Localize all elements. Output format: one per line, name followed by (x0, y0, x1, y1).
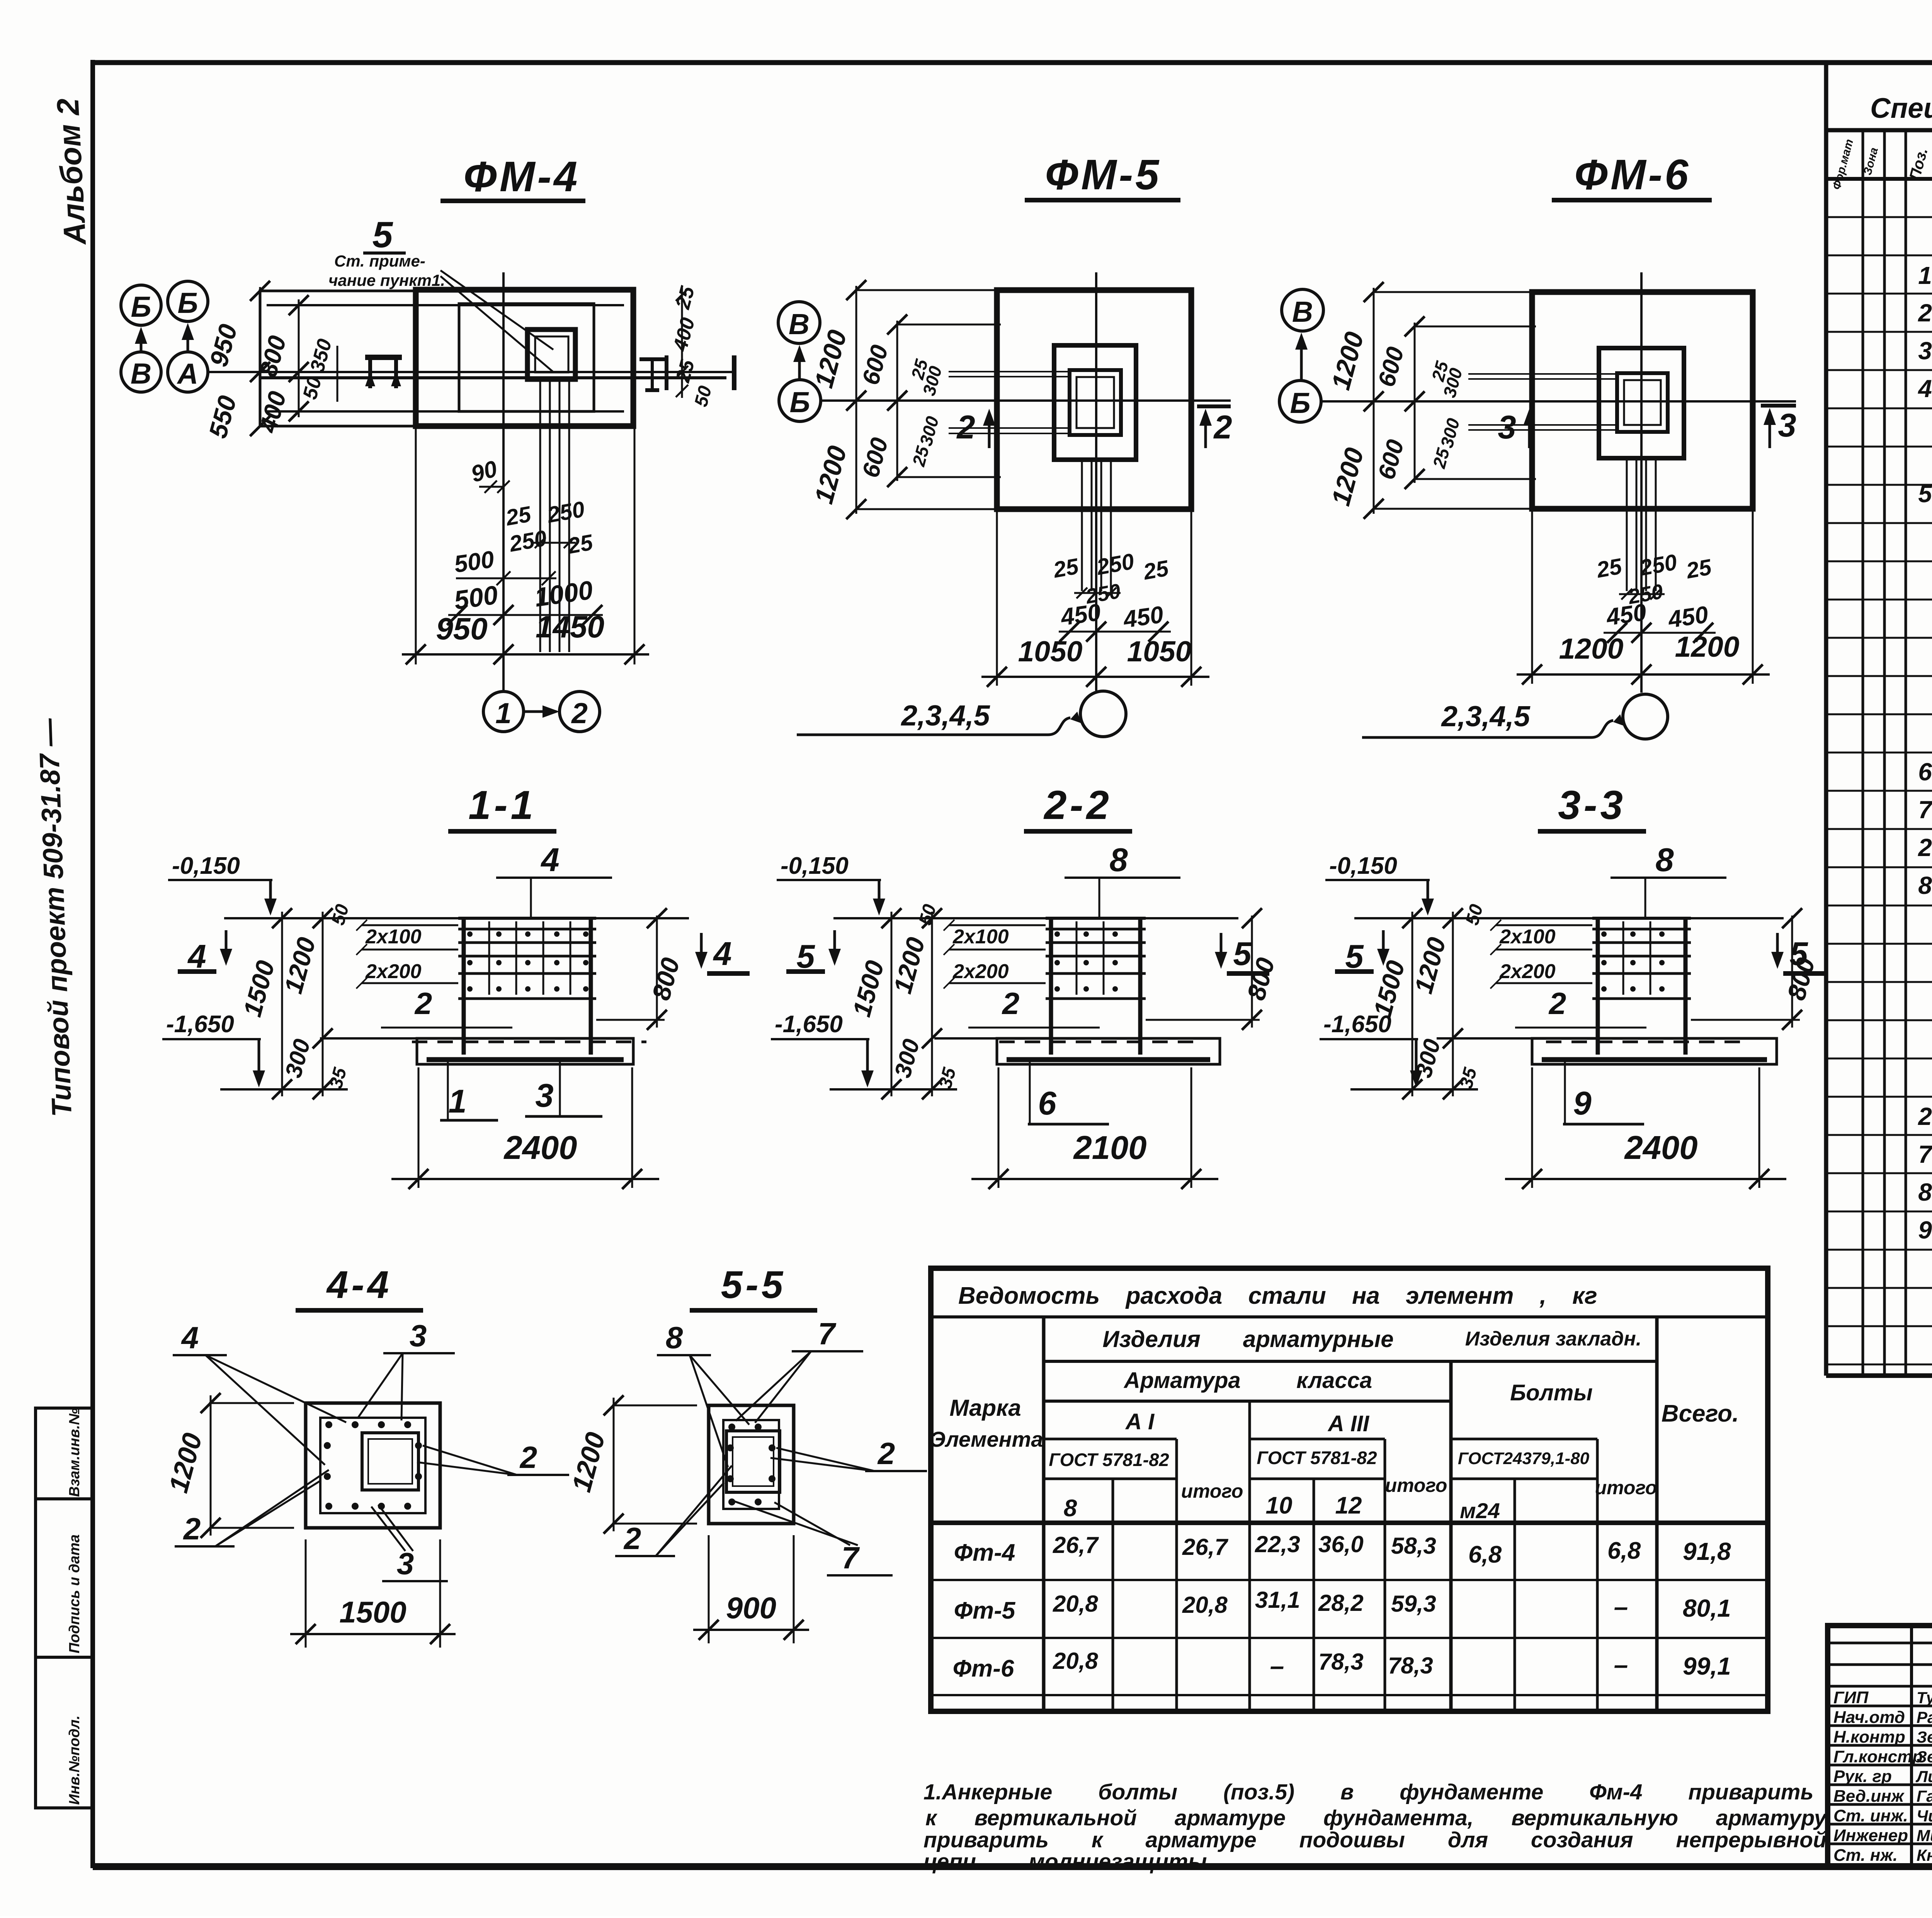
svg-text:Спецификация к фундамента: Спецификация к фундаментам Фт-4 ÷ Фт-6 (1870, 93, 1932, 124)
section 2-2 dim chain 1500/1200/300 (847, 902, 960, 1099)
detail 5-5 dim 900 (693, 1535, 809, 1643)
svg-text:Мирошниченко: Мирошниченко (1917, 1826, 1932, 1845)
spec row 7b (1918, 1140, 1932, 1174)
detail 4-4 dim 1200 (163, 1393, 294, 1538)
spec row 7 (1918, 795, 1932, 829)
svg-text:6,8: 6,8 (1607, 1537, 1641, 1564)
svg-text:4: 4 (1917, 375, 1932, 403)
svg-text:25: 25 (1141, 556, 1171, 585)
plan FM-5 dims 25 250 25 (1051, 549, 1171, 608)
svg-text:2: 2 (1918, 299, 1932, 327)
svg-text:500: 500 (452, 580, 500, 615)
margin text Album 2 (50, 97, 92, 246)
svg-text:2: 2 (1918, 1103, 1932, 1130)
plan FM-5 axis circle B (779, 380, 821, 421)
svg-text:Б: Б (1290, 387, 1310, 419)
plan FM-6 dims 25 250 25 (1594, 549, 1714, 608)
svg-text:1: 1 (495, 697, 512, 729)
plan FM-4 anchor box (527, 330, 575, 379)
detail 5-5 leader ('2', 2294, 3790) right (770, 1436, 927, 1471)
svg-text:4: 4 (540, 842, 559, 878)
section 1-1 cut mark 4 right (695, 933, 750, 973)
detail 4-4 dim 1500 (290, 1539, 456, 1648)
detail 5-5 leader ('2', 1637, 4010) bottom-left (615, 1466, 732, 1556)
svg-text:450: 450 (1666, 601, 1710, 633)
svg-text:2,3,4,5: 2,3,4,5 (1440, 700, 1531, 732)
svg-text:-0,150: -0,150 (172, 853, 240, 879)
svg-text:ГОСТ 5781-82: ГОСТ 5781-82 (1257, 1447, 1377, 1468)
svg-text:Марка: Марка (949, 1395, 1021, 1421)
svg-text:2x200: 2x200 (1499, 960, 1556, 983)
spec row 8b KZhI-S-10 (1918, 1177, 1932, 1207)
plan FM-5 left dimension chain (809, 280, 1070, 519)
section 1-1 cut mark 4 left (178, 930, 232, 975)
svg-text:2,3,4,5: 2,3,4,5 (900, 699, 990, 732)
svg-text:59,3: 59,3 (1391, 1591, 1436, 1617)
svg-text:6: 6 (1038, 1085, 1056, 1122)
svg-text:450: 450 (1121, 601, 1165, 633)
plan FM-4 dims 25 250 25 (503, 496, 595, 559)
plan FM-6 horizontal axis (1322, 400, 1796, 403)
plan FM-6 section mark 3 left (1498, 409, 1536, 448)
svg-text:1: 1 (1918, 262, 1932, 289)
svg-text:-0,150: -0,150 (781, 853, 849, 879)
svg-text:ГОСТ 5781-82: ГОСТ 5781-82 (1049, 1449, 1169, 1470)
plan FM-4 vertical axis line 1 (502, 272, 505, 691)
section 2-2 level -1,650 (771, 1011, 874, 1087)
svg-text:78,3: 78,3 (1388, 1653, 1433, 1678)
plan FM-5 bolt projection lines (1082, 460, 1111, 591)
plan FM-4 slab strip outline (260, 291, 634, 426)
plan FM-4 dims 500 1000 (447, 575, 603, 625)
plan FM-4 axis circle A (168, 352, 208, 392)
plan FM-6 axis circle V (1282, 289, 1323, 331)
plan FM-5 anchor box (1070, 370, 1121, 435)
section 3-3 pos label 9 (1563, 1062, 1644, 1124)
detail 4-4 leader ('3', 1082, 3485) top-right (357, 1318, 455, 1420)
svg-text:1050: 1050 (1127, 635, 1192, 668)
svg-text:2: 2 (956, 409, 975, 446)
svg-text:2400: 2400 (1624, 1130, 1697, 1166)
plan FM-5 callout circle 2345 (797, 691, 1126, 737)
section 3-3 dim chain 1500/1200/300 (1368, 902, 1487, 1099)
detail 5-5 leader ('8', 1745, 3490) top-left (657, 1320, 749, 1467)
plan FM-6 anchor box (1617, 373, 1668, 432)
svg-text:91,8: 91,8 (1683, 1537, 1731, 1565)
section 1-1 label 2 leader (381, 986, 512, 1028)
svg-text:Б: Б (131, 291, 151, 323)
svg-text:9: 9 (1918, 1216, 1932, 1244)
svg-text:Рук. гр: Рук. гр (1833, 1767, 1892, 1786)
detail 4-4 title (296, 1263, 423, 1310)
svg-text:3: 3 (1778, 407, 1796, 444)
plan FM-4 left dimension chain (203, 281, 337, 441)
plan FM-4 foundation slab outline (416, 290, 633, 426)
svg-text:ГИП: ГИП (1833, 1688, 1869, 1707)
svg-text:2: 2 (1213, 409, 1232, 446)
detail 4-4 leader ('4', 492, 3490) top-left (173, 1320, 346, 1465)
section 3-3 top rebar label 8 (1611, 842, 1726, 919)
specification table title (1870, 93, 1932, 124)
section 1-1 column rebar mesh (458, 918, 596, 1055)
spec row 3 (1918, 336, 1932, 370)
svg-text:7: 7 (1918, 796, 1932, 824)
section 2-2 dim 800 right (1146, 908, 1280, 1030)
section 2-2 cut mark 5 right (1215, 933, 1269, 973)
section 1-1 bottom level line (220, 1088, 348, 1091)
section 3-3 level -1,650 (1320, 1011, 1422, 1087)
svg-text:цепи молниезащиты.: цепи молниезащиты. (923, 1849, 1213, 1874)
svg-text:А III: А III (1327, 1411, 1370, 1436)
plan FM-4 note 5 leader (328, 214, 553, 372)
svg-text:ФМ-5: ФМ-5 (1045, 151, 1162, 199)
svg-text:Галактионова: Галактионова (1917, 1787, 1932, 1805)
section 2-2 title (1024, 783, 1132, 831)
detail 5-5 leader ('7', 2200, 4060) bottom-right (732, 1500, 893, 1575)
svg-text:7: 7 (818, 1317, 837, 1351)
spec row 5 bolt (1918, 480, 1932, 508)
svg-text:9: 9 (1573, 1085, 1591, 1122)
svg-text:2: 2 (183, 1512, 201, 1546)
svg-text:2100: 2100 (1073, 1130, 1146, 1166)
svg-text:900: 900 (726, 1591, 776, 1625)
svg-text:22,3: 22,3 (1255, 1531, 1300, 1557)
plan FM-6 section mark 3 right (1761, 406, 1796, 448)
detail 5-5 anchor window (726, 1431, 780, 1492)
svg-text:4: 4 (181, 1320, 199, 1355)
section 2-2 label 2 leader (968, 986, 1100, 1028)
svg-text:2: 2 (414, 986, 432, 1021)
svg-text:Взам.инв.№: Взам.инв.№ (66, 1408, 83, 1497)
svg-text:20,8: 20,8 (1053, 1648, 1098, 1674)
svg-text:5-5: 5-5 (721, 1263, 786, 1306)
svg-text:1.Анкерные болты (поз.5) в фун: 1.Анкерные болты (поз.5) в фундаменте Фм… (923, 1780, 1813, 1804)
svg-text:1200: 1200 (1559, 632, 1624, 665)
svg-text:78,3: 78,3 (1318, 1649, 1364, 1675)
svg-text:Фт-5: Фт-5 (954, 1597, 1016, 1624)
svg-text:Изделия арматурные: Изделия арматурные (1102, 1326, 1393, 1352)
svg-text:А: А (177, 357, 198, 390)
svg-text:-0,150: -0,150 (1329, 853, 1397, 879)
svg-text:12: 12 (1335, 1492, 1362, 1519)
section 2-2 pos label 6 (1028, 1062, 1109, 1124)
spec row 2 (1918, 299, 1932, 333)
section 3-3 mesh spacing labels (1490, 920, 1592, 989)
svg-text:25: 25 (503, 501, 533, 531)
svg-text:Инв.№подл.: Инв.№подл. (66, 1716, 83, 1805)
plan FM-6 slab outline (1532, 292, 1753, 509)
section 2-2 column rebar mesh (1046, 918, 1146, 1055)
svg-text:6,8: 6,8 (1468, 1541, 1502, 1568)
plan FM-5 section mark 2 right (1197, 406, 1232, 448)
section 3-3 bottom level line (1350, 1088, 1478, 1091)
plan FM-6 callout circle 2345 (1362, 694, 1668, 739)
svg-text:25: 25 (1684, 554, 1714, 584)
svg-text:чание пункт1.: чание пункт1. (328, 271, 445, 289)
svg-text:2x100: 2x100 (1499, 926, 1556, 948)
title FM-5 (1025, 151, 1180, 200)
svg-text:20,8: 20,8 (1182, 1592, 1228, 1618)
plan FM-6 column outline (1599, 348, 1684, 458)
svg-text:ФМ-4: ФМ-4 (464, 153, 580, 200)
plan FM-5 dims 1050 1050 (981, 509, 1209, 687)
svg-text:8: 8 (1918, 1178, 1932, 1206)
plan FM-4 section mark 1 right (732, 355, 736, 390)
title block staff rows (1828, 1686, 1932, 1865)
svg-text:В: В (131, 357, 151, 390)
plan FM-6 vertical axis (1640, 272, 1643, 693)
svg-text:–: – (1270, 1651, 1284, 1680)
svg-text:Болты: Болты (1510, 1380, 1593, 1405)
svg-text:2x100: 2x100 (952, 926, 1009, 948)
plan FM-4 dim 90 (468, 455, 510, 493)
section 3-3 bottom dim 2400 (1505, 1067, 1786, 1189)
detail 4-4 rebar dots (324, 1421, 422, 1510)
svg-text:2x200: 2x200 (952, 960, 1009, 983)
svg-text:450: 450 (1604, 599, 1648, 631)
notes text (923, 1780, 1828, 1874)
section 1-1 level -0,150 (168, 853, 277, 916)
plan FM-4 I-beam symbol (639, 355, 667, 390)
svg-text:–: – (1614, 1592, 1628, 1621)
section 3-3 cut mark 5 left (1335, 930, 1389, 975)
section 2-2 cut mark 5 left (786, 930, 841, 975)
svg-text:Ст. нж.: Ст. нж. (1833, 1846, 1898, 1865)
svg-text:Фт-4: Фт-4 (954, 1539, 1015, 1566)
svg-text:99,1: 99,1 (1683, 1652, 1731, 1680)
plan FM-5 dims 450 450 (1058, 599, 1171, 642)
svg-text:6: 6 (1918, 758, 1932, 786)
plan FM-4 anchor bolt projection lines (540, 379, 569, 652)
plan FM-4 dims 950 1450 (402, 426, 649, 664)
section 1-1 pos label 1 (440, 1062, 498, 1120)
section 3-3 footing (1437, 1038, 1777, 1064)
section 1-1 dim 800 right (596, 908, 685, 1030)
spec row 1 setka 4C (1918, 258, 1932, 296)
specification table grid (1826, 63, 1932, 1376)
svg-text:Ст. инж.: Ст. инж. (1833, 1806, 1908, 1825)
title FM-4 (440, 153, 585, 201)
svg-text:7: 7 (1918, 1140, 1932, 1168)
svg-text:итого: итого (1385, 1475, 1447, 1496)
svg-text:4: 4 (713, 936, 731, 972)
svg-text:-1,650: -1,650 (166, 1011, 234, 1038)
plan FM-4 bracket symbol P (365, 357, 402, 388)
svg-text:1: 1 (448, 1083, 466, 1120)
margin text Tipovoy proekt 509-31.87 (33, 717, 78, 1117)
plan FM-5 section mark 2 left (956, 409, 995, 448)
svg-text:2x100: 2x100 (365, 926, 422, 948)
svg-text:25: 25 (1051, 554, 1081, 583)
svg-text:Чирва: Чирва (1917, 1807, 1932, 1825)
detail 5-5 outer square (709, 1405, 794, 1524)
svg-text:Н.контр: Н.контр (1833, 1728, 1905, 1746)
detail 5-5 rebar dots (727, 1424, 776, 1505)
svg-text:2400: 2400 (503, 1130, 577, 1166)
detail 4-4 leader ('3', 1049, 4075) bottom-right (371, 1505, 448, 1581)
svg-text:3: 3 (410, 1318, 427, 1353)
svg-text:Всего.: Всего. (1662, 1400, 1739, 1427)
svg-text:1050: 1050 (1018, 635, 1083, 668)
section 1-1 footing (320, 1038, 646, 1064)
svg-text:2: 2 (519, 1440, 537, 1475)
svg-text:10: 10 (1266, 1492, 1293, 1519)
svg-text:80,1: 80,1 (1683, 1594, 1731, 1622)
svg-text:Вед.инж: Вед.инж (1833, 1787, 1905, 1806)
svg-text:ФМ-6: ФМ-6 (1575, 151, 1691, 199)
steel table texts (930, 1283, 1739, 1682)
section 3-3 top line (1354, 917, 1784, 919)
svg-text:Лисунов: Лисунов (1915, 1767, 1932, 1785)
svg-text:8: 8 (1109, 842, 1128, 878)
svg-text:5: 5 (1918, 480, 1932, 508)
svg-text:Б: Б (789, 386, 810, 418)
svg-text:итого: итого (1181, 1480, 1243, 1502)
section 3-3 cut mark 5 right (1771, 933, 1826, 973)
svg-text:1200: 1200 (1675, 630, 1740, 663)
plan FM-6 dims 1200 1200 (1517, 509, 1770, 685)
svg-text:итого: итого (1595, 1477, 1657, 1498)
svg-text:В: В (1292, 296, 1313, 328)
section 2-2 footing (934, 1038, 1220, 1064)
section 2-2 mesh spacing labels (944, 920, 1046, 989)
svg-text:3-3: 3-3 (1558, 783, 1626, 828)
plan FM-5 column outline (1054, 345, 1136, 460)
section 2-2 bottom dim 2100 (971, 1067, 1218, 1189)
svg-text:Элемента: Элемента (930, 1427, 1043, 1451)
section 3-3 title (1538, 783, 1646, 831)
svg-text:Зеленский: Зеленский (1917, 1748, 1932, 1766)
svg-text:Ведомость расхода стали на эле: Ведомость расхода стали на элемент , кг (958, 1283, 1597, 1309)
svg-text:3: 3 (1918, 337, 1932, 365)
detail 5-5 title (690, 1263, 817, 1310)
svg-text:Арматура класса: Арматура класса (1123, 1368, 1372, 1393)
svg-text:31,1: 31,1 (1255, 1587, 1300, 1613)
svg-text:Зеленский: Зеленский (1917, 1728, 1932, 1746)
section 2-2 level -0,150 (777, 853, 885, 916)
plan FM-4 axis circle V (121, 352, 161, 392)
detail 5-5 leader ('7', 2139, 3480) top-right (736, 1317, 863, 1423)
svg-text:Подпись и дата: Подпись и дата (66, 1534, 83, 1653)
plan FM-4 horizontal axis line (208, 372, 736, 378)
detail 4-4 outer square (306, 1403, 440, 1528)
section 2-2 bottom level line (830, 1088, 957, 1091)
section 1-1 level -1,650 (162, 1011, 265, 1087)
svg-text:58,3: 58,3 (1391, 1533, 1436, 1559)
spec row 8 KZhN-S-10 (1918, 871, 1932, 900)
svg-text:приварить к арматуре подошвы д: приварить к арматуре подошвы для создани… (923, 1828, 1827, 1852)
svg-text:1500: 1500 (339, 1595, 406, 1629)
section 2-2 top line (833, 917, 1238, 919)
svg-text:В: В (789, 308, 810, 340)
svg-text:2: 2 (623, 1521, 641, 1556)
svg-text:20,8: 20,8 (1053, 1591, 1098, 1617)
plan FM-5 axis circle V (778, 302, 820, 343)
svg-text:Княжицкая: Княжицкая (1917, 1846, 1932, 1864)
svg-text:8: 8 (666, 1320, 683, 1355)
section 2-2 top rebar label 8 (1065, 842, 1180, 919)
plan FM-6 dims 450 450 (1604, 599, 1716, 643)
plan FM-4 axis circle B2 (168, 281, 208, 321)
svg-text:8: 8 (1655, 842, 1674, 878)
section 3-3 label 2 leader (1515, 986, 1646, 1028)
section 3-3 column rebar mesh (1592, 918, 1691, 1055)
plan FM-6 axis arrow (1295, 333, 1308, 381)
svg-text:3: 3 (1498, 409, 1516, 446)
svg-text:26,7: 26,7 (1053, 1532, 1099, 1558)
svg-text:25: 25 (1594, 554, 1624, 583)
svg-text:2: 2 (1918, 834, 1932, 861)
section 1-1 bottom dim 2400 (391, 1067, 659, 1189)
svg-text:2: 2 (877, 1436, 895, 1471)
margin stamp boxes (rotated) (36, 1408, 93, 1808)
spec row 9 setka 2C (1918, 1215, 1932, 1250)
plan FM-5 axis arrow (793, 345, 806, 380)
svg-text:2x200: 2x200 (365, 960, 422, 983)
svg-text:450: 450 (1058, 599, 1102, 631)
svg-text:4-4: 4-4 (326, 1263, 392, 1306)
spec row 6 setka 4C (1918, 754, 1932, 792)
plan FM-6 bolt projection lines (1627, 458, 1656, 591)
svg-text:–: – (1614, 1650, 1628, 1679)
section 3-3 dim 800 right (1691, 908, 1820, 1030)
detail 5-5 dim 1200 (566, 1395, 697, 1534)
svg-text:36,0: 36,0 (1318, 1531, 1364, 1557)
svg-text:Нач.отд: Нач.отд (1833, 1708, 1905, 1727)
svg-text:1450: 1450 (536, 610, 604, 644)
svg-text:5: 5 (372, 214, 393, 255)
title FM-6 (1552, 151, 1712, 200)
section 1-1 top rebar label 4 (496, 842, 612, 919)
svg-text:2: 2 (1548, 986, 1566, 1021)
svg-text:Изделия закладн.: Изделия закладн. (1465, 1328, 1642, 1350)
plan FM-4 bottom axis circles 1 2 (483, 691, 600, 732)
svg-text:2: 2 (571, 697, 588, 729)
plan FM-4 right side dims 25 400 25 (669, 284, 716, 409)
svg-text:8: 8 (1918, 872, 1932, 899)
section 1-1 title (448, 783, 556, 831)
svg-text:28,2: 28,2 (1318, 1590, 1364, 1616)
svg-text:м24: м24 (1460, 1498, 1500, 1523)
svg-text:Радько: Радько (1917, 1708, 1932, 1726)
svg-text:25: 25 (565, 530, 595, 559)
svg-text:Инженер: Инженер (1833, 1826, 1908, 1845)
plan FM-4 axis circle B1 (121, 285, 161, 325)
section 1-1 top line (224, 917, 689, 919)
spec header labels (1830, 138, 1932, 191)
svg-text:500: 500 (452, 546, 496, 578)
section 1-1 mesh spacing labels (356, 920, 458, 989)
svg-text:Туринский: Туринский (1917, 1689, 1932, 1707)
plan FM-5 slab outline (997, 290, 1191, 509)
svg-text:950: 950 (436, 612, 487, 646)
detail 4-4 leader ('2', 1368, 3800) right (417, 1440, 569, 1475)
detail 4-4 anchor window (362, 1433, 418, 1490)
plan FM-6 left dimension chain (1326, 282, 1618, 519)
section 3-3 level -0,150 (1325, 853, 1434, 916)
svg-text:Б: Б (177, 287, 198, 319)
plan FM-4 column outline (459, 304, 594, 411)
svg-text:3: 3 (397, 1546, 414, 1581)
plan FM-5 horizontal axis (821, 399, 1231, 402)
section 1-1 dim chain 1500/1200/300 (238, 902, 353, 1099)
svg-text:2: 2 (1002, 986, 1020, 1021)
plan FM-6 axis circle B (1279, 381, 1321, 422)
svg-text:Фт-6: Фт-6 (953, 1655, 1014, 1682)
spec row 4 KZhN-S-9 (1917, 374, 1932, 403)
plan FM-5 vertical axis (1095, 272, 1097, 691)
section 1-1 pos label 3 (525, 1062, 602, 1116)
